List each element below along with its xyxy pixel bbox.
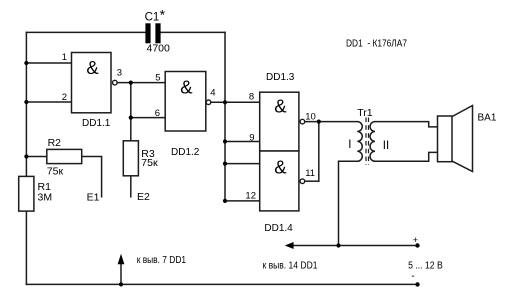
- svg-text:C1: C1: [145, 11, 160, 23]
- wire output 10 to Tr1 primary: [305, 121, 357, 123]
- inverter bubble pin 4: [206, 100, 211, 105]
- wire output 11 stub: [305, 180, 319, 182]
- gate DD1.2 body: [165, 72, 206, 132]
- svg-text:5: 5: [155, 73, 160, 84]
- svg-text:-: -: [411, 270, 415, 282]
- terminal minus: [415, 282, 419, 286]
- svg-text:DD1 - К176ЛА7: DD1 - К176ЛА7: [346, 39, 407, 50]
- inverter bubble pin 11: [300, 179, 305, 184]
- wire top rail left of C1: [26, 31, 145, 33]
- junction node input 2: [24, 100, 28, 104]
- transformer Tr1 core: [366, 118, 369, 165]
- svg-text:11: 11: [305, 168, 315, 179]
- wire input 2 of DD1.1: [26, 101, 71, 103]
- wire Tr1 primary bottom to plus rail: [339, 161, 358, 245]
- svg-text:DD1.4: DD1.4: [264, 223, 293, 234]
- svg-text:1: 1: [62, 52, 67, 63]
- svg-text:6: 6: [155, 108, 160, 119]
- svg-text:3: 3: [117, 67, 122, 78]
- wire R3 bottom lead to electrode E2: [130, 176, 132, 197]
- svg-text:&: &: [86, 57, 99, 78]
- wire Tr1 secondary bottom to speaker: [375, 152, 438, 161]
- svg-text:10: 10: [305, 111, 316, 122]
- wire input 12 of DD1.4: [225, 200, 260, 202]
- svg-text:75к: 75к: [47, 165, 64, 177]
- junction node bus pin 13: [223, 162, 227, 166]
- svg-text:R2: R2: [48, 137, 62, 149]
- gate DD1.1 body: [72, 53, 112, 113]
- junction node bus pin 8: [223, 100, 227, 104]
- wire pin 7 arrow stem: [120, 263, 122, 284]
- junction node input 1: [24, 61, 28, 65]
- svg-text:BA1: BA1: [478, 113, 497, 124]
- gate DD1.3 body: [260, 92, 299, 151]
- svg-text:к выв. 7 DD1: к выв. 7 DD1: [137, 255, 187, 266]
- svg-text:8: 8: [249, 91, 254, 102]
- svg-text:DD1.2: DD1.2: [171, 147, 200, 158]
- speaker BA1 frame: [438, 116, 453, 162]
- transformer Tr1 secondary winding: [370, 122, 375, 162]
- svg-text:12: 12: [245, 190, 256, 201]
- inverter bubble pin 10: [300, 119, 305, 124]
- transformer Tr1 primary winding: [357, 122, 362, 162]
- wire input 9 of DD1.3: [225, 141, 260, 143]
- resistor R3 body: [123, 141, 138, 176]
- junction node outputs 10-11: [317, 120, 321, 124]
- arrowhead to pin 14: [285, 242, 294, 249]
- capacitor C1 right plate: [155, 23, 160, 43]
- wire left vertical rail upper: [25, 32, 27, 176]
- wire bottom minus rail: [26, 283, 417, 285]
- svg-text:DD1.1: DD1.1: [82, 118, 111, 129]
- junction node primary to plus rail: [336, 243, 340, 247]
- gate DD1.4 body: [260, 151, 299, 211]
- wire input 13 of DD1.4: [225, 163, 260, 165]
- arrowhead to pin 7: [118, 254, 125, 264]
- wire Tr1 secondary top to speaker: [375, 122, 438, 127]
- svg-text:E2: E2: [137, 191, 150, 203]
- junction node R2 tap: [24, 154, 28, 158]
- junction node pin7 arrow: [119, 282, 123, 286]
- svg-text:3М: 3М: [38, 192, 53, 204]
- svg-text:4700: 4700: [147, 43, 171, 55]
- junction node input 6 branch: [129, 116, 133, 120]
- wire left vertical rail lower: [25, 211, 27, 284]
- svg-text:4: 4: [210, 87, 215, 98]
- wire input 6 of DD1.2: [131, 117, 165, 119]
- svg-text:*: *: [160, 7, 166, 23]
- wire R2 right lead to electrode E1: [82, 157, 102, 197]
- svg-text:9: 9: [249, 133, 254, 144]
- svg-text:&: &: [180, 76, 193, 97]
- svg-text:+: +: [413, 235, 418, 245]
- wire output 4 to input 8: [211, 101, 260, 103]
- wire R2 left lead: [26, 156, 46, 158]
- svg-text:75к: 75к: [141, 157, 158, 169]
- capacitor C1 left plate: [145, 23, 150, 43]
- wire feedback bus vertical: [224, 32, 226, 201]
- wire plus supply rail: [291, 245, 418, 247]
- wire input 1 of DD1.1: [26, 62, 71, 64]
- svg-text:&: &: [274, 95, 287, 116]
- inverter bubble pin 3: [113, 80, 118, 85]
- svg-text:&: &: [274, 157, 287, 178]
- svg-text:II: II: [383, 140, 389, 152]
- junction node bus pin 12: [223, 199, 227, 203]
- svg-text:к выв. 14 DD1: к выв. 14 DD1: [263, 260, 318, 271]
- svg-text:DD1.3: DD1.3: [266, 72, 295, 83]
- speaker BA1 horn: [452, 106, 473, 172]
- svg-text:2: 2: [62, 92, 67, 103]
- resistor R1 body: [19, 176, 34, 211]
- junction node output 3 branch: [129, 81, 133, 85]
- wire output 3 to input 5: [117, 82, 165, 84]
- svg-text:E1: E1: [87, 191, 100, 203]
- svg-text:I: I: [348, 139, 351, 151]
- terminal plus: [415, 243, 419, 247]
- svg-text:Tr1: Tr1: [357, 107, 373, 119]
- wire branch vertical to R3: [130, 83, 132, 141]
- wire output link 10-11 vertical: [318, 122, 320, 182]
- resistor R2 body: [47, 149, 82, 163]
- junction node bus pin 9: [223, 139, 227, 143]
- wire top rail right of C1: [161, 31, 225, 33]
